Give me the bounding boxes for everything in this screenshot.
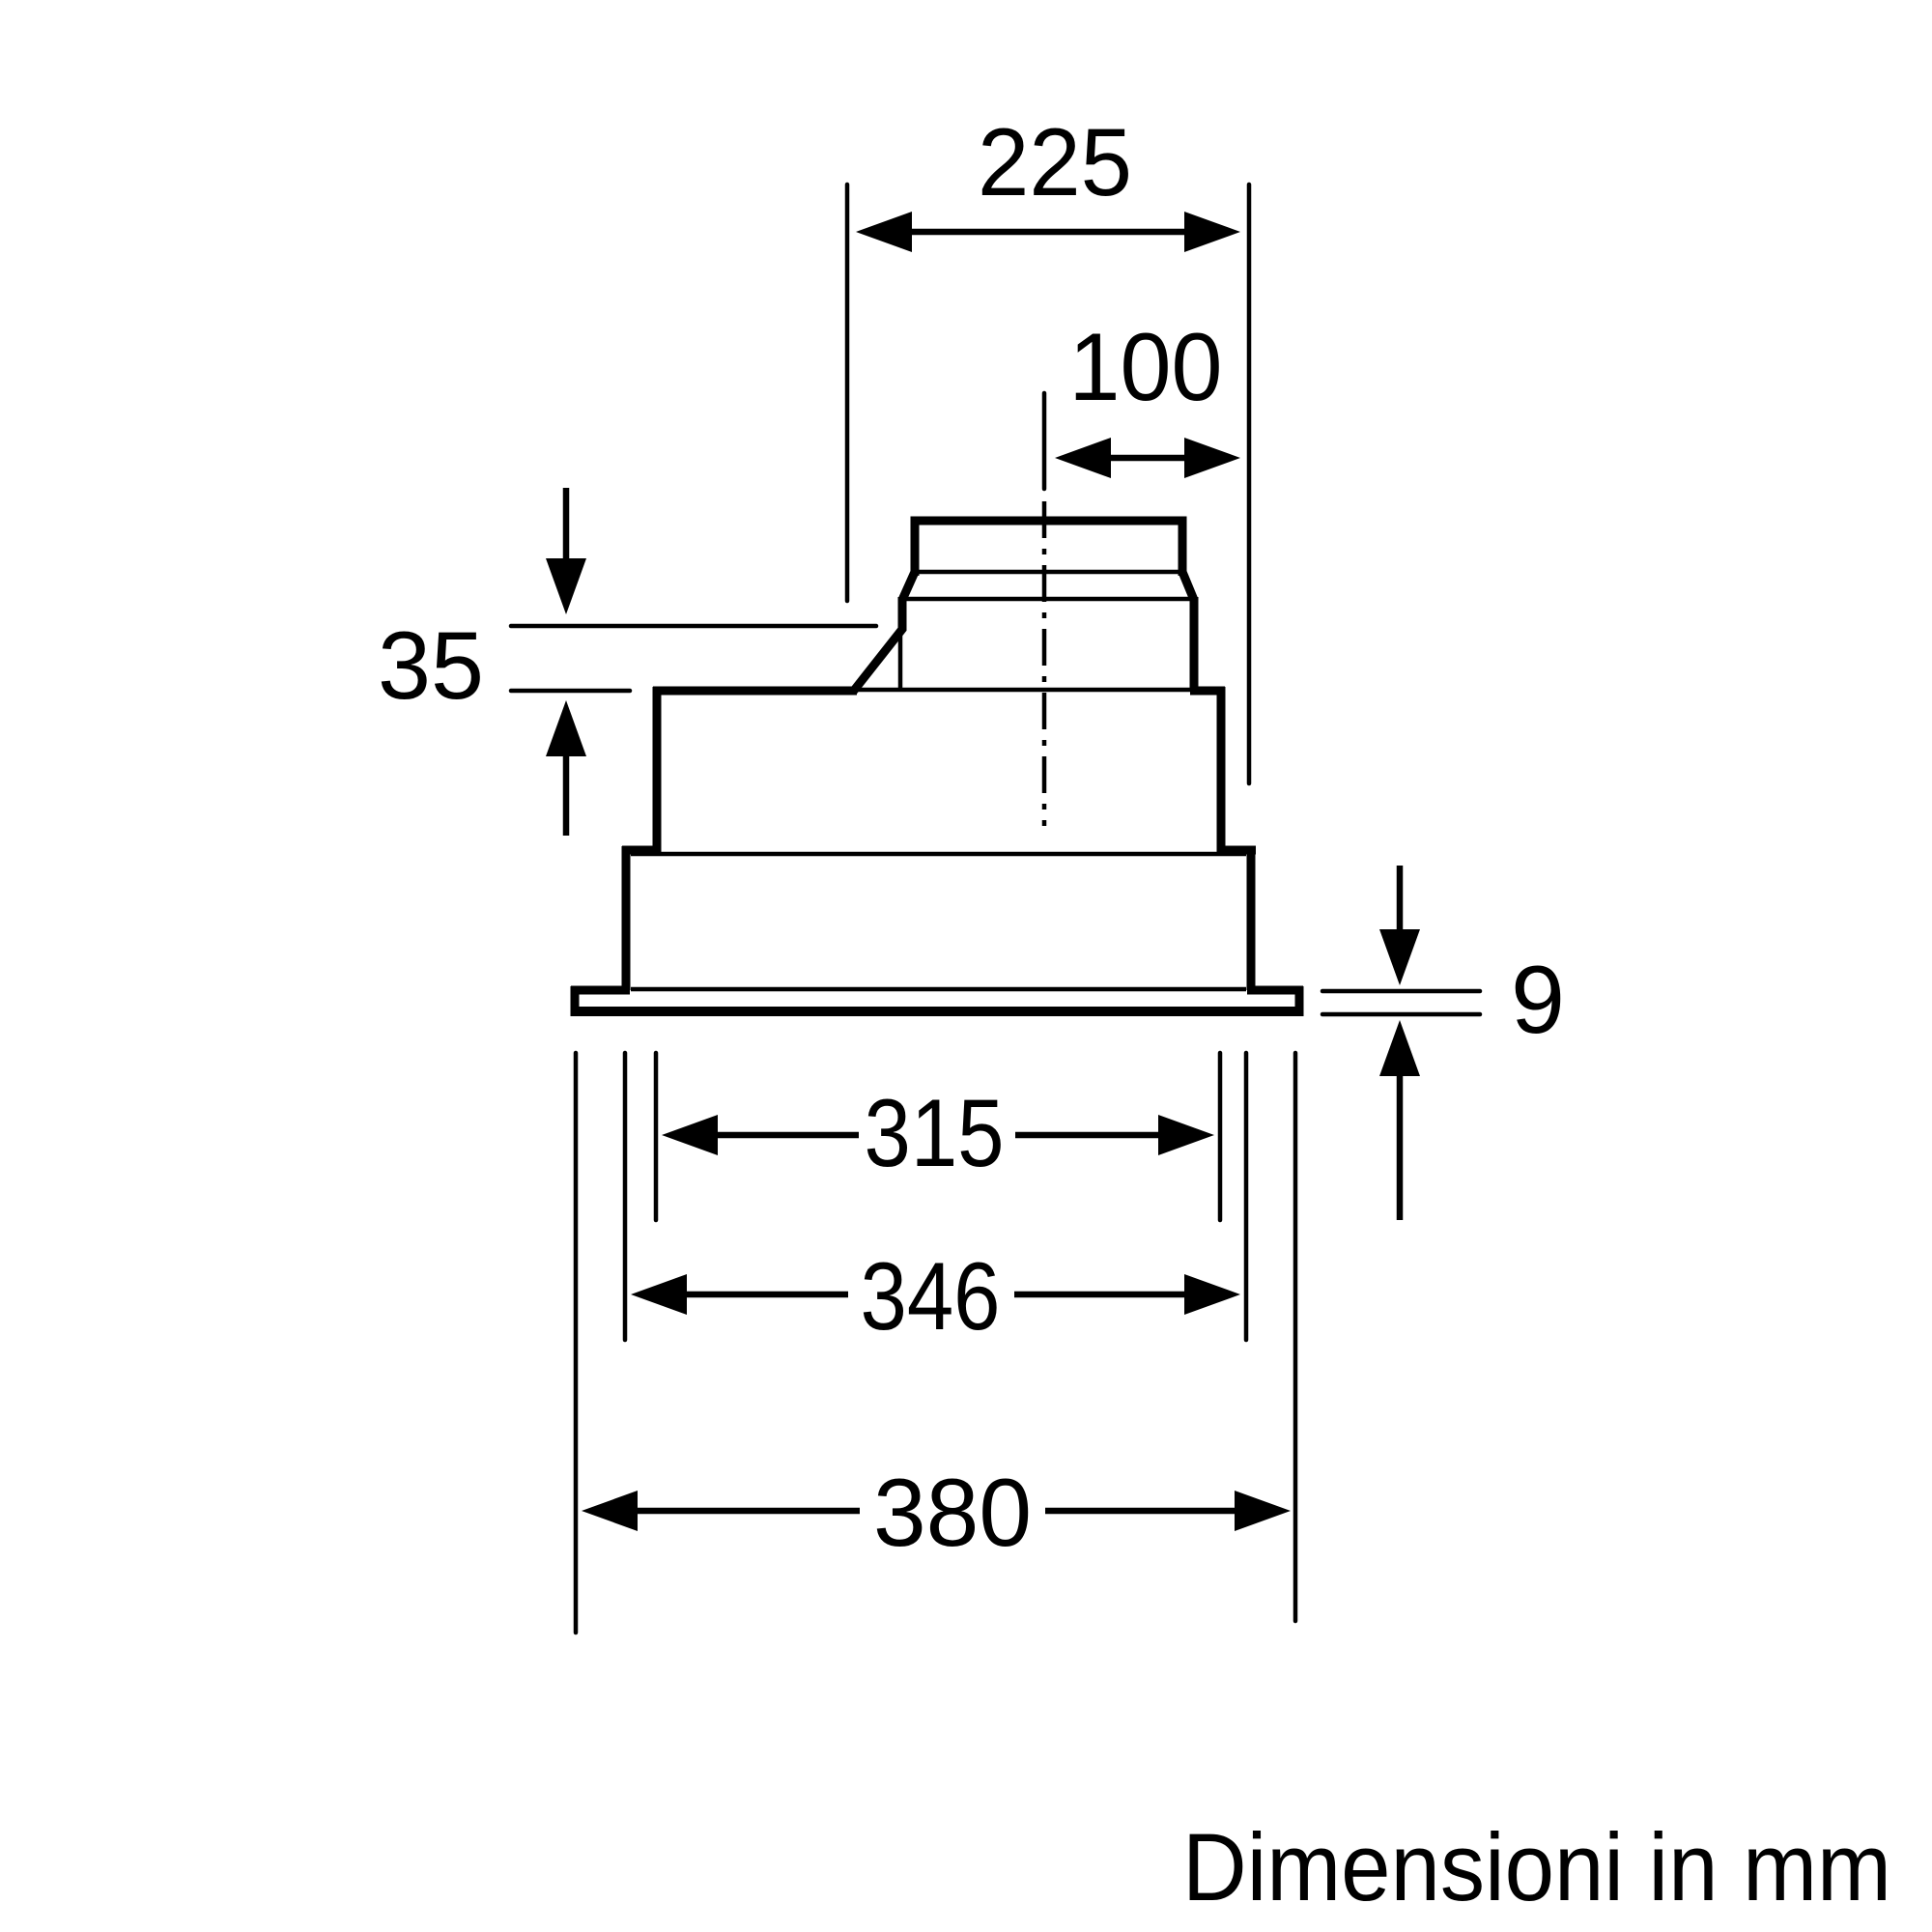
dim 9 down arrow shaft bbox=[1397, 866, 1404, 929]
upper housing top edge left (thick) bbox=[653, 687, 857, 696]
svg-text:225: 225 bbox=[978, 108, 1132, 215]
middle housing step right (thick) bbox=[1217, 846, 1256, 855]
extension line far left (dim 380) bbox=[574, 1053, 579, 1633]
middle housing right edge bbox=[1247, 846, 1256, 990]
flange left end bbox=[571, 986, 580, 1016]
duct collar cap outline bbox=[915, 521, 1182, 576]
upper housing left edge bbox=[653, 687, 662, 854]
dim 35 down arrowhead bbox=[546, 558, 586, 614]
dimension 315 right arrowhead bbox=[1158, 1115, 1214, 1155]
svg-text:315: 315 bbox=[865, 1079, 1005, 1186]
dimension 225 right arrowhead bbox=[1184, 212, 1240, 252]
upper housing top edge behind collar (thin) bbox=[857, 688, 1190, 693]
extension line right (dim 346) bbox=[1244, 1053, 1249, 1340]
dimension 100 left arrowhead bbox=[1055, 438, 1111, 478]
middle housing left edge bbox=[622, 846, 631, 990]
duct collar flare bottom edge (thin) bbox=[902, 597, 1194, 602]
dimension 380 right arrowhead bbox=[1235, 1491, 1291, 1531]
duct collar flare right bbox=[1182, 572, 1194, 600]
dimension 225 left arrowhead bbox=[856, 212, 912, 252]
extension line left of dim 225 bbox=[845, 185, 850, 601]
dimension 315 left arrowhead bbox=[662, 1115, 718, 1155]
dimension line 346 left segment bbox=[687, 1292, 848, 1298]
flange bottom edge (thick) bbox=[571, 1007, 1303, 1016]
dim 9 lower reference line bbox=[1322, 1012, 1480, 1017]
dim 35 down arrow shaft bbox=[563, 488, 570, 558]
dimension line 315 left segment bbox=[718, 1132, 859, 1139]
dimension 380 left arrowhead bbox=[582, 1491, 638, 1531]
dim 35 lower reference line bbox=[511, 689, 630, 694]
duct collar left hidden edge (thin) bbox=[898, 631, 903, 690]
dimension line 225 shaft bbox=[912, 229, 1184, 236]
upper housing top edge right (thick) bbox=[1190, 687, 1225, 696]
middle housing step left (thick) bbox=[622, 846, 661, 855]
dimension line 380 left segment bbox=[638, 1508, 860, 1515]
dim 35 up arrow shaft bbox=[563, 756, 570, 836]
flange right end bbox=[1295, 986, 1304, 1016]
dimension 100 right arrowhead bbox=[1184, 438, 1240, 478]
extension line right (dim 315) bbox=[1218, 1053, 1223, 1220]
middle housing top edge (thin) bbox=[631, 852, 1246, 857]
dim 9 up arrowhead bbox=[1379, 1020, 1420, 1076]
duct collar cap bottom edge (thin) bbox=[915, 570, 1182, 575]
extension line left (dim 315) bbox=[654, 1053, 659, 1220]
duct centerline (dash-dot) bbox=[1042, 501, 1047, 826]
svg-text:Dimensioni in mm: Dimensioni in mm bbox=[1182, 1813, 1891, 1920]
dimension line 100 shaft bbox=[1111, 455, 1184, 462]
dim 35 up arrowhead bbox=[546, 700, 586, 756]
extension line far right (dim 380) bbox=[1293, 1053, 1298, 1621]
duct collar left vertical bbox=[898, 597, 907, 631]
upper housing right edge bbox=[1217, 687, 1226, 854]
dimension 346 left arrowhead bbox=[631, 1274, 687, 1315]
dimension line 380 right segment bbox=[1045, 1508, 1235, 1515]
svg-text:35: 35 bbox=[378, 611, 484, 719]
svg-text:100: 100 bbox=[1069, 313, 1223, 420]
dimension line 346 right segment bbox=[1014, 1292, 1184, 1298]
dimension 346 right arrowhead bbox=[1184, 1274, 1240, 1315]
extension line right of dim 225 bbox=[1247, 185, 1252, 783]
svg-text:346: 346 bbox=[861, 1242, 1001, 1350]
flange top step right (thick) bbox=[1247, 986, 1303, 995]
svg-text:9: 9 bbox=[1511, 946, 1565, 1053]
svg-text:380: 380 bbox=[873, 1459, 1032, 1566]
dim 9 down arrowhead bbox=[1379, 929, 1420, 985]
extension line left (dim 346) bbox=[623, 1053, 628, 1340]
centerline tick (dim 100 reference) bbox=[1042, 393, 1047, 489]
dim 9 up arrow shaft bbox=[1397, 1076, 1404, 1220]
flange top edge (thin) bbox=[631, 987, 1246, 992]
duct collar flare left bbox=[902, 572, 915, 600]
duct collar right vertical bbox=[1190, 597, 1199, 691]
duct transition diagonal bbox=[853, 628, 903, 692]
dim 35 upper reference line bbox=[511, 624, 876, 629]
dim 9 upper reference line bbox=[1322, 989, 1480, 994]
dimension line 315 right segment bbox=[1015, 1132, 1158, 1139]
flange top step left (thick) bbox=[571, 986, 630, 995]
